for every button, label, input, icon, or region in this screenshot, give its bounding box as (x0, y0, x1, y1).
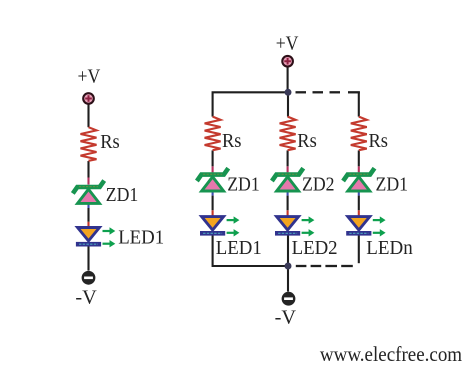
svg-text:+V: +V (276, 32, 299, 54)
svg-text:Rs: Rs (222, 130, 242, 152)
svg-text:ZD2: ZD2 (302, 173, 335, 195)
svg-text:ZD1: ZD1 (227, 173, 260, 195)
svg-text:www.elecfree.com: www.elecfree.com (320, 342, 462, 366)
svg-text:Rs: Rs (100, 131, 120, 153)
svg-text:ZD1: ZD1 (106, 184, 139, 206)
svg-text:LED1: LED1 (216, 237, 262, 259)
svg-text:-V: -V (75, 287, 97, 309)
svg-text:ZD1: ZD1 (376, 173, 409, 195)
svg-text:LEDn: LEDn (366, 237, 412, 259)
svg-text:-V: -V (275, 307, 297, 329)
svg-text:LED2: LED2 (292, 237, 338, 259)
svg-text:LED1: LED1 (118, 227, 164, 249)
svg-text:Rs: Rs (369, 130, 389, 152)
svg-text:+V: +V (78, 66, 101, 88)
svg-text:Rs: Rs (297, 130, 317, 152)
